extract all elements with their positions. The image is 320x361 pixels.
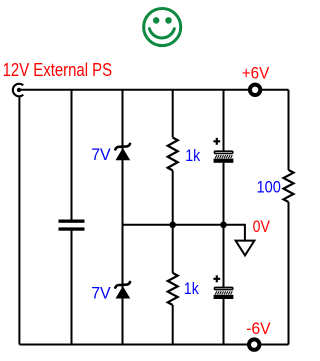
wire right edge lower	[288, 202, 290, 345]
resistor R3 100	[284, 170, 294, 202]
resistor R2 1k	[168, 273, 178, 305]
connector J1 12V input jack	[13, 84, 23, 97]
wire top rail +6V	[19, 89, 289, 91]
capacitor C2 electrolytic	[213, 138, 233, 163]
wire capacitor column lower	[71, 231, 73, 345]
zener diode ZD1	[115, 144, 130, 161]
wire left edge (jack shell to bottom rail)	[18, 97, 20, 345]
wire right edge upper	[288, 90, 290, 170]
wire middle rail 0V	[123, 225, 245, 241]
wire capacitor column upper	[71, 90, 73, 220]
wire bottom rail -6V	[19, 344, 288, 346]
zener diode ZD2	[115, 282, 130, 299]
svg-text:+6V: +6V	[242, 63, 270, 82]
svg-text:100: 100	[257, 178, 281, 197]
terminal -6V	[249, 339, 259, 349]
svg-text:1k: 1k	[184, 279, 199, 298]
svg-text:7V: 7V	[91, 283, 111, 302]
resistor R1 1k	[168, 138, 178, 171]
wire resistor column middle	[172, 171, 174, 274]
wire electrolytic column middle	[223, 163, 225, 287]
capacitor C3 electrolytic	[213, 275, 233, 299]
svg-text:12V External PS: 12V External PS	[3, 60, 113, 80]
wire zener column	[122, 90, 124, 345]
wire electrolytic column upper	[223, 90, 225, 151]
wire resistor column lower	[172, 305, 174, 345]
ground symbol 0V	[236, 241, 255, 256]
junction node at C column	[220, 222, 227, 229]
junction node at R column	[169, 222, 176, 229]
svg-text:1k: 1k	[185, 146, 200, 165]
terminal +6V	[250, 85, 260, 95]
smiley face	[144, 9, 181, 46]
wire electrolytic column lower	[223, 299, 225, 345]
svg-text:7V: 7V	[91, 145, 111, 164]
svg-text:-6V: -6V	[246, 319, 271, 338]
capacitor C1	[59, 220, 85, 231]
svg-text:0V: 0V	[253, 217, 271, 236]
wire resistor column upper	[172, 90, 174, 138]
